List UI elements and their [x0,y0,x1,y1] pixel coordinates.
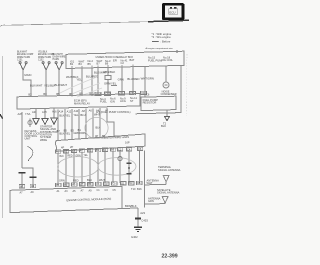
svg-text:A23: A23 [140,211,145,215]
paper edge tick [0,114,3,118]
svg-text:C5: C5 [112,182,116,186]
svg-text:C102: C102 [38,59,44,61]
svg-text:A7: A7 [80,149,84,153]
svg-text:C6: C6 [146,93,150,97]
svg-text:C14: C14 [96,92,101,96]
ECM inner pin numbers cluster 1 [20,191,35,194]
svg-text:IGN: IGN [110,99,115,103]
harness oval right [98,158,136,176]
svg-text:C2: C2 [121,61,125,65]
svg-text:BLK: BLK [161,124,166,128]
svg-text:B16: B16 [137,187,142,191]
joint connector Y1 label [17,52,34,62]
connector arrow T2 [165,117,170,121]
bundle wire labels upper [60,155,89,158]
svg-text:C453: C453 [141,219,148,223]
svg-text:BRN/BLK: BRN/BLK [125,204,137,208]
boxed pin C14 [95,92,101,96]
joint connector Y3 [55,62,63,70]
svg-text:*2 : W/o engine: *2 : W/o engine [152,35,172,39]
svg-text:B2: B2 [28,92,32,96]
svg-text:A3: A3 [64,149,68,153]
svg-text:YEL: YEL [73,113,79,117]
dash box inner labels [61,141,130,150]
wire pin labels left [131,187,142,191]
wire to arrow 2 [44,108,46,118]
inline connector bar 1 [19,172,26,174]
destination text block right [40,124,58,141]
wire W72 [71,68,73,96]
ECM pin boxes cluster 3 [95,182,117,186]
svg-text:FUEL: FUEL [100,100,107,104]
ground drop wire [137,208,139,218]
svg-text:SIGNAL ANTENNA: SIGNAL ANTENNA [158,168,181,172]
svg-text:2P: 2P [70,145,73,149]
antenna 2 [162,197,168,204]
svg-text:A9: A9 [88,148,92,152]
harness oval upper [85,117,108,138]
antenna 2 label [157,188,180,195]
svg-text:D3: D3 [129,181,133,185]
pin labels above dash box [57,128,106,138]
svg-text:C1: C1 [96,182,100,186]
svg-text:BLU: BLU [80,113,85,117]
svg-text:T10: T10 [131,187,136,191]
ECM box [10,186,122,212]
wire slack squiggle [28,147,33,162]
relay module texts [74,96,137,105]
svg-text:BLK/WHT: BLK/WHT [30,84,43,88]
svg-text:GRN/YEL: GRN/YEL [104,82,117,86]
svg-text:D1: D1 [121,181,125,185]
wire from Y3 [58,69,60,96]
antenna 1 [163,176,169,185]
svg-text:A4: A4 [96,109,100,113]
svg-text:GRN: GRN [59,179,65,183]
svg-text:B3: B3 [71,128,75,132]
svg-text:22-399: 22-399 [162,254,178,260]
branch to antenna 2 [145,203,166,205]
svg-text:16P: 16P [125,141,130,145]
svg-text:A14: A14 [59,110,64,114]
svg-text:C2: C2 [118,148,122,152]
fuse label 2-line A [148,56,163,63]
svg-text:B9: B9 [105,61,109,65]
wire left chain down [21,112,23,168]
connector circle on wire [118,157,122,161]
joint connector Y2 [42,62,50,70]
ECM pin boxes cluster 1 [19,184,36,188]
fuse symbol on keyless column [28,119,32,127]
page header rule [0,20,189,26]
svg-text:G402: G402 [131,235,138,239]
svg-text:RED: RED [73,178,79,182]
svg-text:MAIN RELAY: MAIN RELAY [74,101,90,105]
wire W92 [91,68,93,96]
under-hood fuse/relay box [66,51,184,68]
harness oval left [58,157,99,177]
svg-text:A6: A6 [89,109,93,113]
wire W122 [121,67,123,95]
tee junction [22,168,33,176]
svg-text:C7: C7 [119,91,123,95]
svg-text:BLK/YEL: BLK/YEL [59,113,70,117]
svg-text:HARN: HARN [53,58,60,61]
inline connector bar 2 [30,176,37,178]
resistor box label [143,98,158,105]
svg-text:C9: C9 [130,91,134,95]
inline connector bar ground [135,218,141,220]
branch 1 wire label [147,178,160,185]
wire W166 to sensor [165,66,167,82]
joint connector Y1 [19,62,27,70]
svg-text:A16: A16 [52,110,57,114]
svg-text:B1: B1 [56,183,60,187]
wire from Y1 with jog [23,69,31,97]
ECM pin boxes cluster 2 [55,182,93,186]
wire W181 long right [135,65,181,114]
wires into ECM [22,174,33,189]
scan ghost arcs [60,77,102,97]
wire color labels above ECM [59,178,105,183]
keyless column text block [25,129,41,141]
svg-text:B9: B9 [88,182,92,186]
pin labels above relay box [28,91,94,96]
svg-text:ST: ST [130,99,134,103]
svg-text:A10: A10 [74,109,79,113]
joint connector Y3 label [53,54,66,61]
wire tall right [144,151,146,208]
svg-text:C6: C6 [138,147,142,151]
branch 2 wire label [148,196,161,203]
svg-text:B1: B1 [70,62,74,66]
svg-text:A12: A12 [67,109,72,113]
dash fuse box [55,134,145,151]
wire W145 [144,66,146,97]
connector arrow label [161,121,167,128]
pin stubs inside box [72,65,133,69]
svg-text:UNDER-HOOD FUSE/RELAY BOX: UNDER-HOOD FUSE/RELAY BOX [96,56,134,59]
boxed pins below dash box [55,147,142,153]
boxed pin C11 [140,91,146,95]
legend note 3 [152,40,159,42]
resistor output wire [166,110,168,116]
svg-text:MAIN: MAIN [24,73,31,77]
svg-text:D5: D5 [137,181,141,185]
wire to arrow 1 [35,109,37,119]
svg-text:CONDENSER: CONDENSER [161,93,177,96]
wire color labels mid [66,70,154,86]
page left frame line [2,56,4,218]
page header rule dark right segment [148,20,189,21]
svg-text:SIGNAL ANTENNA: SIGNAL ANTENNA [157,191,180,195]
connector arrow 2 [42,118,48,124]
svg-text:DASH WIRE: DASH WIRE [53,56,66,59]
wire labels mid band [59,113,100,136]
wires dash box to ECM [58,150,140,184]
svg-text:WIRE HARN: WIRE HARN [17,56,30,59]
page background [0,0,190,265]
connector arrow 3 [51,118,57,124]
svg-text:GRN/BLK: GRN/BLK [103,70,115,74]
svg-text:A8: A8 [82,109,86,113]
svg-text:WHT: WHT [94,113,100,117]
wire W98 [97,68,99,96]
svg-text:GRN: GRN [148,199,154,203]
ground drop wire 2 [137,219,139,226]
svg-text:YEL: YEL [76,78,82,82]
svg-text:B3: B3 [64,183,68,187]
svg-text:A7: A7 [20,184,24,188]
svg-text:B7: B7 [97,62,101,66]
boxed pin C7 [118,91,124,95]
joint connector Y2 label [38,52,55,62]
ECM pin boxes cluster 4 [120,181,142,185]
svg-text:C13: C13 [105,92,110,96]
svg-text:B7: B7 [80,182,84,186]
svg-text:WHT: WHT [99,178,105,182]
svg-text:C101: C101 [17,59,23,61]
component location icon [162,3,185,20]
connector arrow 1 [33,119,39,125]
condenser label [161,90,177,95]
ECM ground extension wire [122,207,138,210]
svg-text:A9: A9 [31,184,35,188]
svg-text:B4: B4 [103,148,107,152]
relay module box [17,94,140,110]
condenser circle [163,82,169,88]
faint page crease [185,54,188,116]
svg-text:A/T (FUEL PUMP CONTROL): A/T (FUEL PUMP CONTROL) [96,110,131,114]
ECM inner pin numbers cluster 2 [57,189,93,193]
svg-text:WHT: WHT [147,181,153,185]
fuel pump resistor box [141,96,176,110]
connector bar on wire [126,162,131,164]
antenna 1 label [158,165,181,172]
svg-text:B2: B2 [96,148,100,152]
svg-text:EFI: EFI [113,59,117,63]
svg-text:B5: B5 [64,129,68,133]
svg-text:B7: B7 [57,129,61,133]
svg-text:A5: A5 [72,149,76,153]
pin labels below relay box [18,108,109,116]
svg-text:B3: B3 [79,62,83,66]
svg-text:WIRE: WIRE [40,138,47,142]
ground G402 [134,227,142,232]
svg-text:4P: 4P [61,145,64,149]
svg-text:ACG: ACG [120,99,126,103]
svg-text:ECU: ECU [169,10,175,14]
svg-text:GRN: GRN [118,77,124,81]
svg-text:BLU: BLU [87,178,92,182]
svg-text:B6: B6 [111,148,115,152]
svg-text:B5: B5 [72,183,76,187]
svg-text:UNIT: UNIT [25,137,31,141]
wire W82 [81,68,83,96]
svg-text:BLK: BLK [60,156,65,158]
svg-text:BLU/WHT: BLU/WHT [55,83,68,87]
svg-text:RESISTOR: RESISTOR [143,101,157,105]
svg-text:BLU/RED: BLU/RED [86,74,98,78]
svg-text:7.5A: 7.5A [25,112,31,116]
fuse labels row [70,58,135,66]
svg-text:IG COIL: IG COIL [163,58,173,62]
svg-text:: Before: : Before [161,40,171,44]
wire W133 [132,67,134,95]
wire to arrow 3 [53,108,55,118]
svg-text:B1: B1 [78,128,82,132]
svg-text:A1: A1 [56,150,60,154]
fuse label 2-line B [163,55,173,62]
svg-text:B5: B5 [88,62,92,66]
leader line to box [176,50,178,53]
wire from Y2 [45,69,47,96]
boxed pin C13 [104,92,110,96]
wire W108 with connector [105,67,117,95]
boxed pin C9 [129,91,135,95]
ECM inner pin numbers cluster 3 [97,189,117,192]
svg-text:C3: C3 [104,182,108,186]
svg-text:FUEL PUMP: FUEL PUMP [148,58,163,62]
svg-text:WHT/GRN: WHT/GRN [141,76,154,80]
svg-text:At engine compartment wire: At engine compartment wire [146,47,174,50]
svg-text:BAT: BAT [130,58,135,62]
wires relay box to dash box [58,108,114,140]
connector bar lower [126,173,131,175]
svg-text:BLU/RED: BLU/RED [127,77,139,81]
svg-text:WIRE HARN: WIRE HARN [38,56,51,59]
junction dot [128,167,130,169]
branch to antenna 1 [145,184,167,186]
